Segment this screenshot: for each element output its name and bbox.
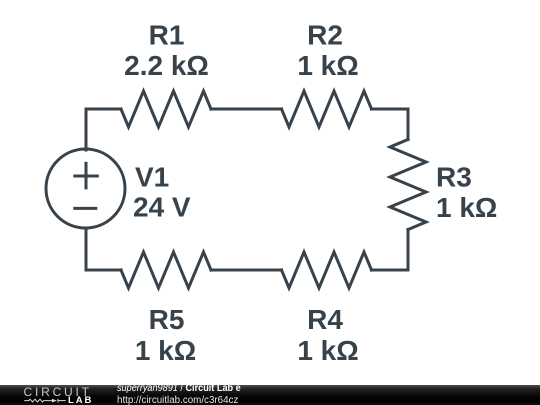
logo word CIRCUIT bbox=[24, 387, 92, 397]
svg-text:1 kΩ: 1 kΩ bbox=[297, 50, 358, 81]
wire bottom-right corner (R3 to R4) bbox=[372, 230, 409, 271]
svg-text:1 kΩ: 1 kΩ bbox=[297, 335, 358, 366]
footer bar bbox=[0, 385, 540, 405]
svg-text:2.2 kΩ: 2.2 kΩ bbox=[124, 50, 209, 81]
svg-text:R2: R2 bbox=[307, 20, 343, 51]
logo resistor bbox=[24, 399, 52, 402]
svg-text:R5: R5 bbox=[149, 304, 185, 335]
resistor R5 bbox=[121, 252, 211, 288]
resistor R1 bbox=[121, 91, 211, 127]
resistor R2 bbox=[282, 91, 372, 127]
svg-text:R3: R3 bbox=[436, 162, 472, 193]
footer credit line 2 bbox=[117, 396, 238, 405]
resistor R4 bbox=[282, 252, 372, 288]
svg-text:R4: R4 bbox=[307, 304, 343, 335]
svg-text:24 V: 24 V bbox=[133, 192, 191, 223]
footer credit line 1 bbox=[117, 384, 241, 394]
wire top-left horizontal (V1+ to R1) bbox=[86, 109, 121, 150]
svg-text:1 kΩ: 1 kΩ bbox=[436, 192, 497, 223]
voltage source V1 circle bbox=[46, 149, 125, 228]
resistor R3 bbox=[390, 140, 426, 230]
svg-text:R1: R1 bbox=[149, 20, 185, 51]
svg-text:1 kΩ: 1 kΩ bbox=[135, 335, 196, 366]
logo diode bbox=[52, 399, 57, 403]
V1 plus sign bbox=[73, 175, 99, 178]
wire bottom middle (R4 to R5) bbox=[211, 269, 282, 272]
logo resistor and diode symbols bbox=[20, 394, 90, 405]
svg-text:V1: V1 bbox=[135, 162, 169, 193]
V1 minus sign bbox=[73, 207, 97, 210]
logo word LAB bbox=[68, 396, 93, 405]
wire top-right corner (R2 to R3) bbox=[372, 109, 409, 140]
wire bottom-left (R5 to V1-) bbox=[86, 229, 121, 271]
wire top middle (R1 to R2) bbox=[211, 108, 282, 111]
